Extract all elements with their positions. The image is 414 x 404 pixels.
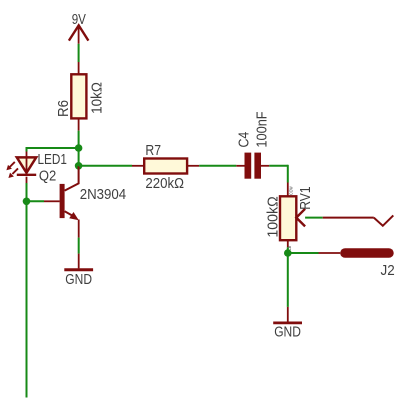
svg-text:GND: GND <box>65 272 92 288</box>
junction node C <box>23 198 31 206</box>
wire 9V to R6 <box>78 44 80 62</box>
capacitor C4 <box>236 153 269 179</box>
wire R7 to C4 <box>199 165 236 167</box>
connector J2 <box>340 248 394 258</box>
svg-text:220kΩ: 220kΩ <box>145 176 184 192</box>
svg-text:J2: J2 <box>381 263 395 279</box>
svg-text:Q2: Q2 <box>39 169 56 185</box>
junction node D <box>284 249 292 257</box>
potentiometer RV1 <box>280 183 305 251</box>
wire C4 to RV1 <box>269 165 288 183</box>
wire node D to J2 <box>288 252 340 254</box>
wire Q2 emitter to GND <box>78 238 80 254</box>
wire node B to R7 <box>79 165 132 167</box>
svg-text:R6: R6 <box>56 100 72 117</box>
wire R6 to node A <box>78 131 80 148</box>
svg-text:2N3904: 2N3904 <box>80 187 127 203</box>
wire node A to node B <box>78 148 80 166</box>
svg-text:C4: C4 <box>237 132 253 148</box>
ground GND right <box>273 307 302 341</box>
svg-text:10kΩ: 10kΩ <box>89 82 105 114</box>
wire LED to node C <box>26 177 28 202</box>
wire LED column top <box>26 147 28 152</box>
resistor R7 <box>132 159 199 174</box>
junction node B <box>75 162 83 170</box>
wire RV1 bottom to node D <box>287 247 289 253</box>
wire RV1 wiper <box>305 215 393 225</box>
LED LED1 <box>6 152 36 179</box>
svg-text:GND: GND <box>274 324 301 340</box>
svg-text:RV1: RV1 <box>298 186 314 209</box>
svg-text:100nF: 100nF <box>254 111 270 147</box>
svg-text:LED1: LED1 <box>38 152 67 168</box>
transistor Q2 <box>60 166 79 238</box>
svg-text:100kΩ: 100kΩ <box>265 196 281 237</box>
power 9V <box>69 12 89 44</box>
svg-text:R7: R7 <box>145 143 161 159</box>
wire node A to LED column <box>27 147 79 149</box>
resistor R6 <box>71 62 86 131</box>
svg-text:CCW: CCW <box>288 186 293 195</box>
junction node A <box>75 144 83 152</box>
wire node D to GND right <box>287 253 289 307</box>
ground GND left <box>64 254 93 288</box>
wire node C down to edge <box>26 201 28 397</box>
wire node C to Q2 base <box>27 200 60 202</box>
